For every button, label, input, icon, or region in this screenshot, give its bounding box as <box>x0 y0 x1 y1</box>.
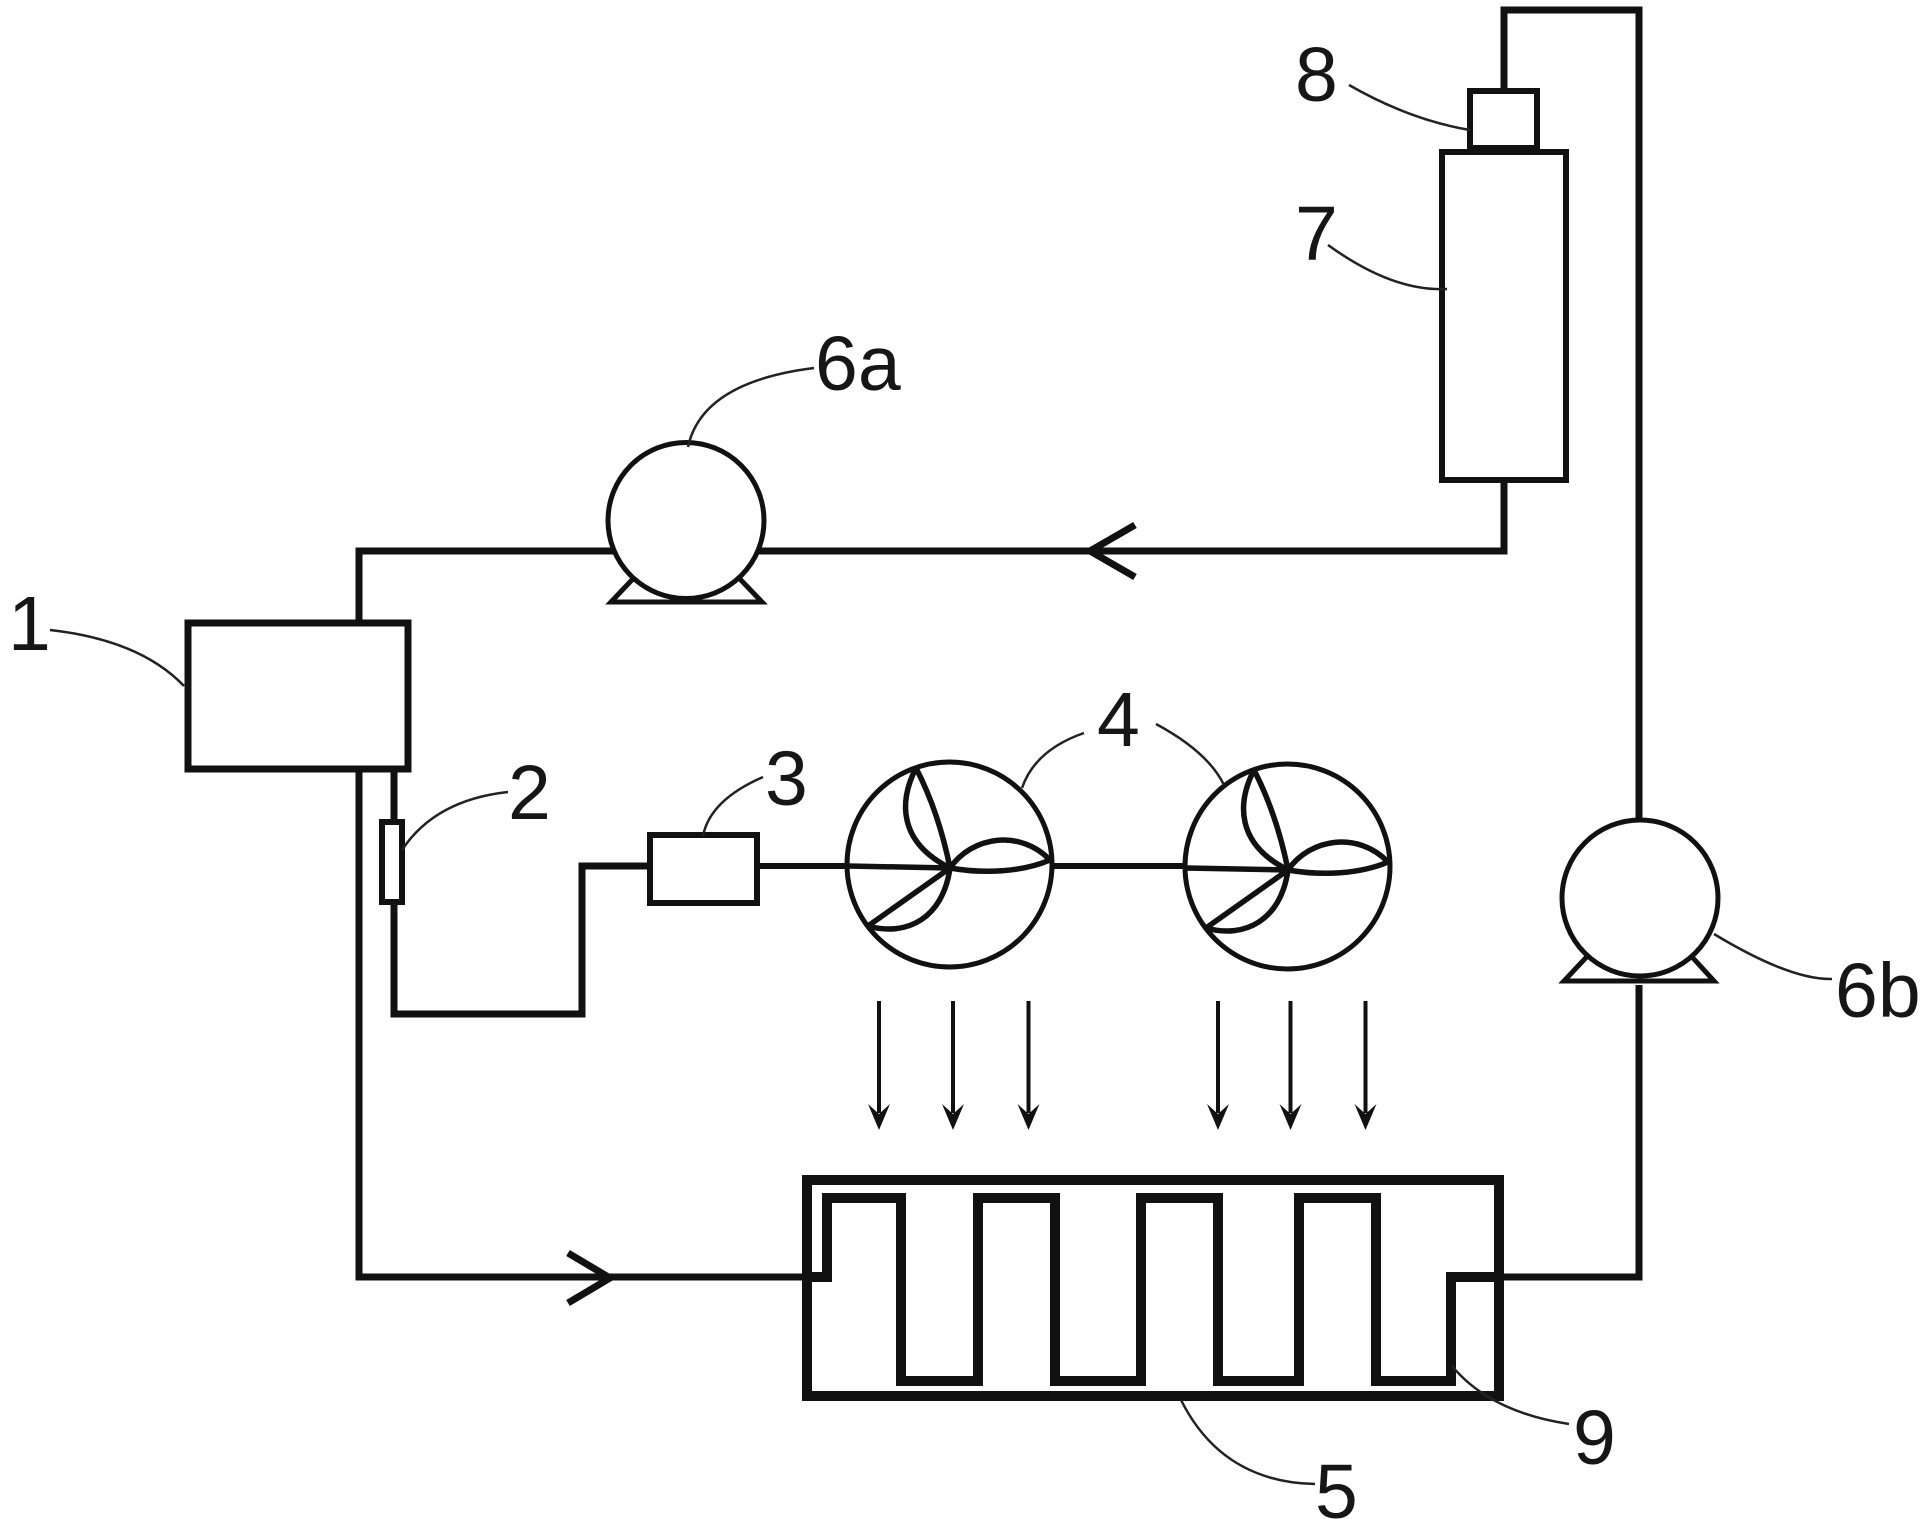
svg-text:6a: 6a <box>815 321 901 407</box>
svg-text:5: 5 <box>1315 1449 1358 1519</box>
svg-text:3: 3 <box>765 736 808 822</box>
svg-text:9: 9 <box>1573 1395 1616 1481</box>
svg-text:7: 7 <box>1295 191 1338 277</box>
svg-text:4: 4 <box>1097 677 1140 763</box>
svg-text:1: 1 <box>8 581 51 667</box>
svg-text:6b: 6b <box>1835 948 1921 1034</box>
svg-text:2: 2 <box>508 750 551 836</box>
svg-text:8: 8 <box>1295 32 1338 118</box>
